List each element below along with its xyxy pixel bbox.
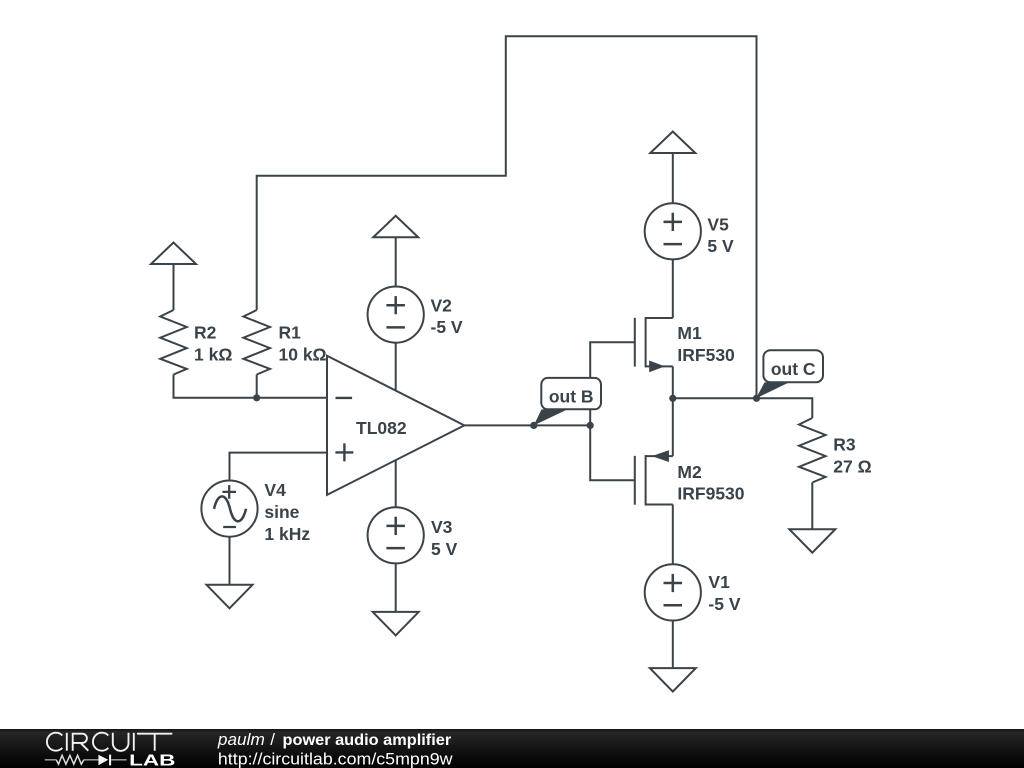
transistor M2 IRF9530 bbox=[635, 450, 673, 505]
power symbol above R2 bbox=[151, 243, 196, 265]
ground below R3 bbox=[789, 529, 835, 553]
node flag out C bbox=[756, 350, 823, 398]
svg-text:LAB: LAB bbox=[129, 753, 175, 768]
svg-text:V1: V1 bbox=[708, 572, 730, 592]
svg-text:paulm: paulm bbox=[217, 730, 265, 749]
wire V4 bottom to ground bbox=[229, 537, 231, 585]
svg-text:-5 V: -5 V bbox=[708, 594, 740, 614]
CircuitLab logo diode triangle bbox=[98, 755, 108, 766]
power symbol above V2 bbox=[373, 216, 418, 238]
wire V4 to op-amp plus input bbox=[230, 453, 328, 481]
wire inverting input net: R2/R1 bottoms to op-amp minus input bbox=[174, 375, 328, 398]
svg-text:out B: out B bbox=[549, 387, 594, 407]
voltage source V2 bbox=[368, 287, 424, 343]
svg-text:/: / bbox=[270, 730, 275, 749]
junction node at out C bbox=[753, 395, 760, 402]
voltage source V5 bbox=[645, 203, 701, 259]
junction node at R1/R2 bottom bbox=[253, 394, 260, 401]
svg-text:V5: V5 bbox=[707, 214, 729, 234]
wire op-amp V- to V3 bbox=[395, 460, 397, 507]
wire R1 bottom lead bbox=[256, 375, 258, 398]
CircuitLab logo CIRCUIT bbox=[47, 733, 172, 751]
svg-text:M1: M1 bbox=[677, 323, 702, 343]
junction node at M1/M2 sources bbox=[669, 395, 676, 402]
wire V1 bottom to ground bbox=[672, 621, 674, 669]
CircuitLab logo squiggle (resistor and diode) bbox=[45, 755, 127, 766]
svg-text:IRF9530: IRF9530 bbox=[677, 484, 744, 504]
wire M1 source to M2 source bbox=[672, 366, 674, 456]
power symbol above V5 bbox=[650, 132, 695, 154]
voltage source V1 bbox=[645, 564, 701, 620]
transistor M1 IRF530 bbox=[635, 317, 673, 372]
svg-text:IRF530: IRF530 bbox=[677, 345, 735, 365]
svg-text:1 kHz: 1 kHz bbox=[264, 524, 310, 544]
svg-text:R1: R1 bbox=[279, 323, 302, 343]
svg-text:10 kΩ: 10 kΩ bbox=[279, 344, 327, 364]
wire op-amp output to gate branch bbox=[464, 424, 590, 426]
ground below V4 bbox=[207, 585, 253, 609]
wire V5 to M1 drain bbox=[672, 259, 674, 318]
wire M2 drain to V1 bbox=[672, 505, 674, 565]
wire out C node to R3 bbox=[673, 398, 813, 418]
sine voltage source V4 bbox=[201, 481, 257, 537]
wire feedback net: R1 top to out C node bbox=[257, 36, 757, 398]
resistor R1 bbox=[243, 310, 270, 375]
ground below V3 bbox=[373, 612, 419, 636]
svg-text:R3: R3 bbox=[833, 435, 856, 455]
svg-text:M2: M2 bbox=[677, 462, 702, 482]
svg-text:-5 V: -5 V bbox=[431, 317, 463, 337]
wire R3 bottom to ground bbox=[811, 483, 813, 530]
wire gate branch to M1 and M2 gates bbox=[590, 342, 635, 480]
ground below V1 bbox=[650, 668, 696, 692]
junction node at op-amp output (out B) bbox=[530, 422, 537, 429]
wire V3 bottom to ground bbox=[395, 563, 397, 612]
svg-text:5 V: 5 V bbox=[431, 539, 458, 559]
svg-text:1 kΩ: 1 kΩ bbox=[194, 344, 232, 364]
svg-text:V4: V4 bbox=[264, 480, 286, 500]
resistor R3 bbox=[799, 418, 826, 483]
wire V5 power stem bbox=[672, 153, 674, 203]
svg-text:V3: V3 bbox=[431, 517, 453, 537]
node flag out B bbox=[534, 378, 601, 426]
wire V2 to op-amp V+ bbox=[395, 343, 397, 391]
svg-text:http://circuitlab.com/c5mpn9w: http://circuitlab.com/c5mpn9w bbox=[218, 749, 453, 768]
junction node at gate branch bbox=[587, 422, 594, 429]
resistor R2 bbox=[160, 310, 187, 375]
voltage source V3 bbox=[368, 507, 424, 563]
svg-text:power audio amplifier: power audio amplifier bbox=[283, 732, 452, 749]
svg-text:27 Ω: 27 Ω bbox=[833, 456, 871, 476]
wire R2 power stem bbox=[173, 264, 175, 310]
wire V2 power stem bbox=[395, 237, 397, 286]
svg-text:out C: out C bbox=[771, 359, 816, 379]
svg-text:5 V: 5 V bbox=[707, 236, 734, 256]
svg-text:TL082: TL082 bbox=[356, 418, 407, 438]
svg-text:V2: V2 bbox=[431, 296, 453, 316]
op-amp U1 TL082 bbox=[327, 356, 464, 495]
svg-text:R2: R2 bbox=[194, 323, 217, 343]
svg-text:sine: sine bbox=[264, 502, 299, 522]
footer bar bbox=[0, 729, 1024, 768]
